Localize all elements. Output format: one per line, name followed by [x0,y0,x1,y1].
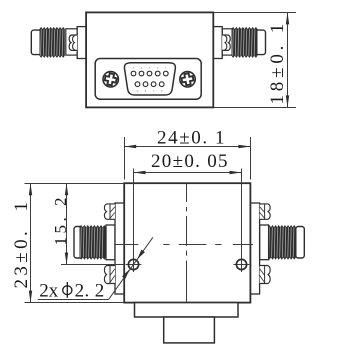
top view: D-sub connector shell [95,59,201,100]
svg-text:24±0. 1: 24±0. 1 [157,128,226,149]
annotation 2xΦ2.2: diameter symbol [63,286,72,295]
top view: right jackscrew (phillips head) [180,72,195,87]
svg-text:18±0. 1: 18±0. 1 [267,20,288,105]
mounting hole right (dia 2.2) center mark [234,264,250,266]
mounting hole left (dia 2.2) center mark [126,264,142,266]
bottom view: D-sub connector stub [164,317,215,343]
mounting hole right (dia 2.2) [236,259,246,269]
bottom view: right SMA end cap [296,227,305,259]
bottom view: left mounting screw bottom (castellated) [104,266,115,284]
top view: right SMA connector end cap [256,30,266,54]
dimension 15.2: dimension line with arrows [66,183,68,264]
bottom view: right SMA mounting plate [250,203,259,294]
top view: D-sub D-shaped insert [124,63,175,95]
svg-text:20±0. 05: 20±0. 05 [151,151,229,172]
dimension 20±0.05: dimension line with arrows [134,172,242,174]
bottom view: right SMA threads [268,227,296,258]
annotation 2xΦ2.2: underline [38,299,109,301]
top view: left SMA barrel section [66,29,77,55]
top view: left SMA flange [77,27,86,59]
top view: left SMA coupling nut (castellated) [69,35,77,50]
top view: left jackscrew (phillips head) [103,72,118,87]
top view: right SMA coupling nut (castellated) [222,35,230,50]
top view: D-sub pins row 2 (4 pins) [135,82,140,87]
annotation 2xΦ2.2: arrowheads at hole [122,269,130,279]
bottom view: right mounting screw top (castellated) [260,204,271,219]
svg-text:15. 2: 15. 2 [51,194,70,246]
dimension 23±0.1: dimension line with arrows [30,183,32,302]
top view: right SMA flange [213,27,222,59]
bottom view: left SMA mounting plate [115,203,124,294]
top view: module body [86,12,213,107]
top view: right SMA connector threads [232,29,258,56]
dimension 15.2: extension line at hole centerline [61,264,124,266]
dimension 24±0.1: extension lines [124,137,126,180]
bottom view: module body [124,183,250,302]
top view: right SMA barrel section [222,29,233,55]
annotation 2xΦ2.2: leader line through left hole [109,237,153,299]
bottom view: vertical centerline (chain) [186,183,188,202]
bottom view: right SMA neck [260,225,269,260]
bottom view: D-sub housing band [135,303,239,317]
svg-text:23±0. 1: 23±0. 1 [11,199,32,289]
svg-text:2x: 2x [39,280,59,301]
bottom view: right mounting screw bottom (castellated) [260,266,271,284]
top view: D-sub pins row 1 (5 pins) [131,71,136,76]
dimension 18±0.1: extension lines [213,12,296,14]
bottom view: left SMA threads [80,227,107,258]
top view: left SMA connector end cap [31,30,43,54]
mounting hole left (dia 2.2) [128,259,138,269]
bottom view: left SMA end cap [74,227,83,259]
top view: left SMA connector threads [40,29,65,56]
bottom view: left SMA neck [106,225,115,260]
dimension 24±0.1: dimension line with arrows [124,146,250,148]
bottom view: horizontal centerline (chain) [114,244,138,246]
dimension 20±0.05: extension lines through holes [133,169,135,273]
svg-text:2. 2: 2. 2 [75,280,105,301]
dimension 23±0.1: extension lines [25,183,125,185]
bottom view: left mounting screw top (castellated) [104,204,115,219]
dimension 18±0.1: dimension line with arrows [287,12,289,107]
